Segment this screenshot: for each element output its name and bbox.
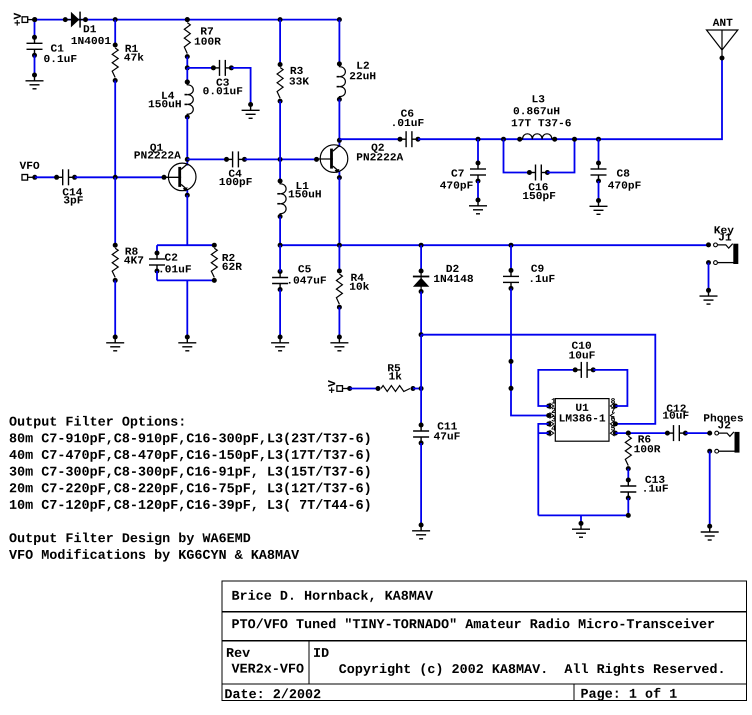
wire C3 branch wire xyxy=(187,67,213,69)
wire C1 to ground xyxy=(34,55,36,75)
wire U1 ground rail xyxy=(538,514,628,516)
label C14 xyxy=(63,188,82,195)
wire D2 to DC node xyxy=(420,292,422,335)
label C7 value xyxy=(440,181,473,190)
label L1 value xyxy=(289,190,321,197)
wire Q1 collector to C4 xyxy=(187,158,226,160)
resistor R3 xyxy=(277,62,283,104)
node node C3 branch xyxy=(185,65,190,70)
node Q2 base node xyxy=(314,157,319,162)
label C7 xyxy=(451,169,463,176)
power terminal +V (top left) xyxy=(14,13,21,26)
wire top +V rail xyxy=(35,19,340,21)
capacitor C3 xyxy=(211,60,234,76)
wire C1 branch xyxy=(34,20,36,38)
wire R4 to ground xyxy=(338,307,340,337)
label R4 value xyxy=(350,282,369,290)
ground below C5 xyxy=(271,335,289,351)
wire rail to R3 xyxy=(279,20,281,65)
label C4 xyxy=(229,170,242,177)
label L4 xyxy=(162,92,174,99)
capacitor C1 xyxy=(27,35,43,58)
wire pin8 wire xyxy=(593,370,627,406)
pin 3 of U1 (+in) xyxy=(546,416,555,427)
node junction RF/C7 xyxy=(476,137,481,142)
label L1 xyxy=(297,182,309,189)
wire R6 to C13 xyxy=(627,469,629,480)
terminal VFO xyxy=(22,175,37,181)
capacitor C8 xyxy=(591,161,607,184)
pin 4 of U1 (gnd) xyxy=(546,425,556,436)
wire Q1 emitter drop xyxy=(186,195,188,245)
label R6 value xyxy=(634,445,660,452)
label Key xyxy=(715,226,734,235)
label C10 xyxy=(572,342,591,349)
wire pin4 wire xyxy=(538,432,548,434)
label C9 value xyxy=(531,275,555,282)
wire J1 sleeve to ground xyxy=(708,263,710,291)
wire key rail to R4 xyxy=(338,245,340,271)
label C1 value xyxy=(44,55,76,62)
terminal +V top xyxy=(22,17,37,23)
wire C4 to Q2 base xyxy=(245,158,317,160)
label C3 xyxy=(216,78,228,85)
capacitor C10 xyxy=(573,362,596,378)
label C14 value xyxy=(64,196,83,205)
wire Q2 collector stub xyxy=(338,140,340,147)
wire R7 to C3 node xyxy=(186,57,188,68)
label R7 value xyxy=(195,37,221,44)
label C9 xyxy=(531,265,543,272)
wire C5 to ground xyxy=(279,290,281,338)
capacitor C14 xyxy=(54,169,77,185)
wire C9 down to U1 pin2 xyxy=(511,289,549,416)
node junction C13/ground rail xyxy=(626,513,631,518)
wire C12 to J2 xyxy=(685,432,709,434)
label C6 xyxy=(401,109,413,116)
wire R5 to D2 column xyxy=(413,388,421,390)
ground below Q1 emitter xyxy=(178,335,196,351)
wire C2 leg top xyxy=(156,245,158,253)
capacitor C12 xyxy=(665,425,688,441)
wire DC rail to pin6 xyxy=(421,335,655,424)
ground below C1 xyxy=(26,73,44,89)
node junction RF/loop left xyxy=(501,137,506,142)
label Q1 xyxy=(150,144,163,153)
resistor R4 xyxy=(336,269,342,310)
jack J2 (Phones) xyxy=(707,431,739,454)
wire pin1 wire xyxy=(538,370,575,406)
pin 7 of U1 (bypass7) xyxy=(610,408,614,419)
node Q1 emitter node xyxy=(185,193,190,198)
label C6 value xyxy=(393,119,423,126)
label L3 value xyxy=(514,107,560,114)
label C5 xyxy=(298,265,310,272)
resistor R2 xyxy=(211,243,217,283)
wire Q2 emitter stub xyxy=(338,171,340,178)
pin 8 of U1 (gain8) xyxy=(610,398,618,409)
resistor R1 xyxy=(112,43,118,84)
wire C2R2 bottom rail xyxy=(157,279,214,281)
capacitor C4 xyxy=(224,151,247,167)
wire C8 to ground xyxy=(598,181,600,201)
pin 5 of U1 (out5) xyxy=(610,425,618,436)
label L2 value xyxy=(350,72,375,79)
wire C8 branch xyxy=(598,139,600,163)
transistor Q2 PN2222A xyxy=(316,145,348,174)
diode D1 1N4001 xyxy=(63,12,88,28)
node ANT node xyxy=(720,56,725,61)
wire L2 to Q2 collector xyxy=(338,99,340,139)
wire C3 to ground xyxy=(231,68,250,105)
wire loop left xyxy=(504,139,530,172)
wire J2 sleeve to ground xyxy=(709,451,711,526)
jack J1 (Key) xyxy=(706,242,738,265)
wire loop right xyxy=(547,139,574,172)
diode D2 1N4148 xyxy=(413,269,429,295)
label Q2 type xyxy=(357,153,403,160)
ground below C8 xyxy=(590,198,608,214)
label Q2 xyxy=(371,144,383,153)
wire L4 to Q1 collector xyxy=(186,117,188,159)
notes text block xyxy=(9,416,369,562)
title block text xyxy=(225,590,722,701)
node junction rail/R1 xyxy=(113,17,118,22)
label J2 xyxy=(718,421,730,428)
label D2 value xyxy=(434,275,473,282)
capacitor C9 xyxy=(503,268,519,291)
ground below C3 xyxy=(242,102,260,118)
label C2 xyxy=(165,253,177,260)
wire R8 to ground xyxy=(114,280,116,337)
node junction R1/base rail xyxy=(113,175,118,180)
label R6 xyxy=(638,435,650,442)
label U1 xyxy=(576,404,588,411)
capacitor C6 xyxy=(398,131,421,147)
label R8 xyxy=(126,247,138,254)
label C8 value xyxy=(608,181,641,190)
label J1 xyxy=(719,233,731,240)
label C13 value xyxy=(644,485,668,492)
inductor L4 xyxy=(185,80,194,120)
ground below J1 xyxy=(700,288,718,304)
wire emitter to ground xyxy=(186,280,188,337)
label R7 xyxy=(201,27,213,34)
node junction rail/R3 xyxy=(278,17,283,22)
op-amp U1 LM386-1 body xyxy=(555,399,609,442)
label D2 xyxy=(447,265,459,272)
wire RF rail 2 xyxy=(418,58,722,139)
wire DC node to C11 xyxy=(420,389,422,426)
label R5 value xyxy=(389,372,401,380)
pin 2 of U1 (-in) xyxy=(546,408,555,419)
label R2 value xyxy=(222,263,241,270)
label VFO xyxy=(20,162,40,169)
transistor Q1 PN2222A xyxy=(164,163,196,192)
ground below R4 xyxy=(330,335,348,351)
resistor R6 xyxy=(625,431,631,472)
node junction rail/R7 xyxy=(185,17,190,22)
capacitor C13 xyxy=(620,478,636,501)
ground below J2 xyxy=(701,524,719,540)
node junction key rail/L1-C5 xyxy=(278,243,283,248)
label C11 value xyxy=(434,432,460,439)
label C16 value xyxy=(523,192,555,201)
wire Q1 emitter stub xyxy=(186,189,188,195)
label R1 xyxy=(126,45,138,52)
wire C14 to base rail xyxy=(75,176,164,178)
ground below C7 xyxy=(469,198,487,214)
wire C2R2 top rail xyxy=(157,244,214,246)
node junction key rail/R4 xyxy=(337,243,342,248)
wire C13 to ground rail xyxy=(627,498,629,515)
label L4 value xyxy=(149,100,181,107)
wire R1 to VFO rail xyxy=(114,81,116,178)
label Q1 type xyxy=(135,151,181,158)
wire pin3 wire xyxy=(538,424,548,516)
label C11 xyxy=(438,422,457,429)
node Q1 collector node xyxy=(185,157,190,162)
node Q1 base node xyxy=(162,175,167,180)
wire C7 to ground xyxy=(477,181,479,200)
label L2 xyxy=(357,62,369,69)
wire rail to L2 xyxy=(338,20,340,64)
node node L4 top xyxy=(185,80,190,85)
label L3 xyxy=(533,95,545,102)
label R3 xyxy=(291,67,303,74)
wire key rail to C5 xyxy=(279,245,281,271)
resistor R8 xyxy=(112,243,118,283)
node junction key rail/C9 xyxy=(509,243,514,248)
wire C11 to ground xyxy=(420,443,422,525)
wire output rail xyxy=(615,432,667,434)
inductor L3 xyxy=(517,134,557,142)
resistor R5 xyxy=(376,386,416,392)
node Q2 emitter node xyxy=(337,175,342,180)
node junction RF/loop right xyxy=(572,137,577,142)
label R8 value xyxy=(124,256,143,263)
wire base rail to R8 xyxy=(114,177,116,245)
wire R1 upper lead xyxy=(114,20,116,45)
node junction rail/L2 xyxy=(337,17,342,22)
capacitor C11 xyxy=(413,423,429,446)
label L3 turns xyxy=(512,119,571,126)
wire Q1 collector stub xyxy=(186,159,188,165)
node junction D2/DC rail xyxy=(419,332,424,337)
label C2 value xyxy=(161,265,191,272)
inductor L2 xyxy=(337,61,346,102)
capacitor C5 xyxy=(272,269,288,292)
label U1 type xyxy=(560,414,605,421)
label R2 xyxy=(223,254,235,261)
label R4 xyxy=(351,274,363,281)
wire DC rail to R5 junction xyxy=(420,335,422,389)
ground below U1 xyxy=(572,521,590,537)
label C8 xyxy=(617,169,629,176)
resistor R7 xyxy=(184,17,190,59)
node node on C9 column a xyxy=(509,359,514,364)
terminal +V R5 xyxy=(337,386,352,392)
antenna ANT xyxy=(707,30,738,56)
wire key rail to C9 xyxy=(510,245,512,270)
pin 6 of U1 (vs6) xyxy=(610,416,618,427)
label C12 xyxy=(667,404,686,411)
label C1 xyxy=(51,44,64,51)
wire U1 ground tap xyxy=(580,515,582,523)
wire R3 to base junction xyxy=(279,101,281,159)
wire key rail to D2 xyxy=(420,245,422,271)
label D1 value xyxy=(72,37,111,44)
node Q2 collector node xyxy=(337,138,342,143)
node junction +V/C1 xyxy=(32,17,37,22)
label C13 xyxy=(645,476,664,483)
label C12 value xyxy=(663,411,688,418)
node junction R5/D2 column xyxy=(419,386,424,391)
title block frame xyxy=(222,581,747,700)
wire Q2 emitter to rail xyxy=(338,178,340,246)
ground below C11 xyxy=(412,523,430,539)
wire L1 to emitter rail xyxy=(279,217,281,246)
pin 1 of U1 (in+) xyxy=(546,398,555,409)
node junction RF/C8 xyxy=(596,137,601,142)
capacitor C16 xyxy=(527,165,550,181)
node junction out/R6 xyxy=(626,431,631,436)
label R3 value xyxy=(289,77,309,84)
label C10 value xyxy=(569,351,594,358)
node node on C9 column b xyxy=(509,386,514,391)
node junction R3-L1/base xyxy=(278,157,283,162)
wire C7 branch xyxy=(477,139,479,163)
label C16 xyxy=(529,183,548,190)
label C3 value xyxy=(203,87,242,94)
capacitor C7 xyxy=(470,161,486,184)
wire VFO to C14 xyxy=(35,176,56,178)
inductor L1 xyxy=(277,179,286,220)
wire C2 leg bottom xyxy=(156,271,158,280)
label ANT xyxy=(713,19,733,26)
wire +V to R5 xyxy=(350,388,378,390)
power terminal +V (R5 feed) xyxy=(328,380,335,393)
label Phones xyxy=(704,414,743,422)
wire key rail xyxy=(280,244,708,246)
wire RF rail xyxy=(339,138,400,140)
ground below R8 xyxy=(106,335,124,351)
wire base junction to L1 xyxy=(279,159,281,181)
label R5 xyxy=(388,364,400,371)
label R1 value xyxy=(124,53,143,61)
label D1 xyxy=(84,25,96,32)
label C4 value xyxy=(220,178,252,187)
label C5 value xyxy=(289,276,326,283)
capacitor C2 xyxy=(149,251,165,274)
node junction key rail/D2 xyxy=(419,243,424,248)
wire C3 node to L4 xyxy=(186,68,188,82)
